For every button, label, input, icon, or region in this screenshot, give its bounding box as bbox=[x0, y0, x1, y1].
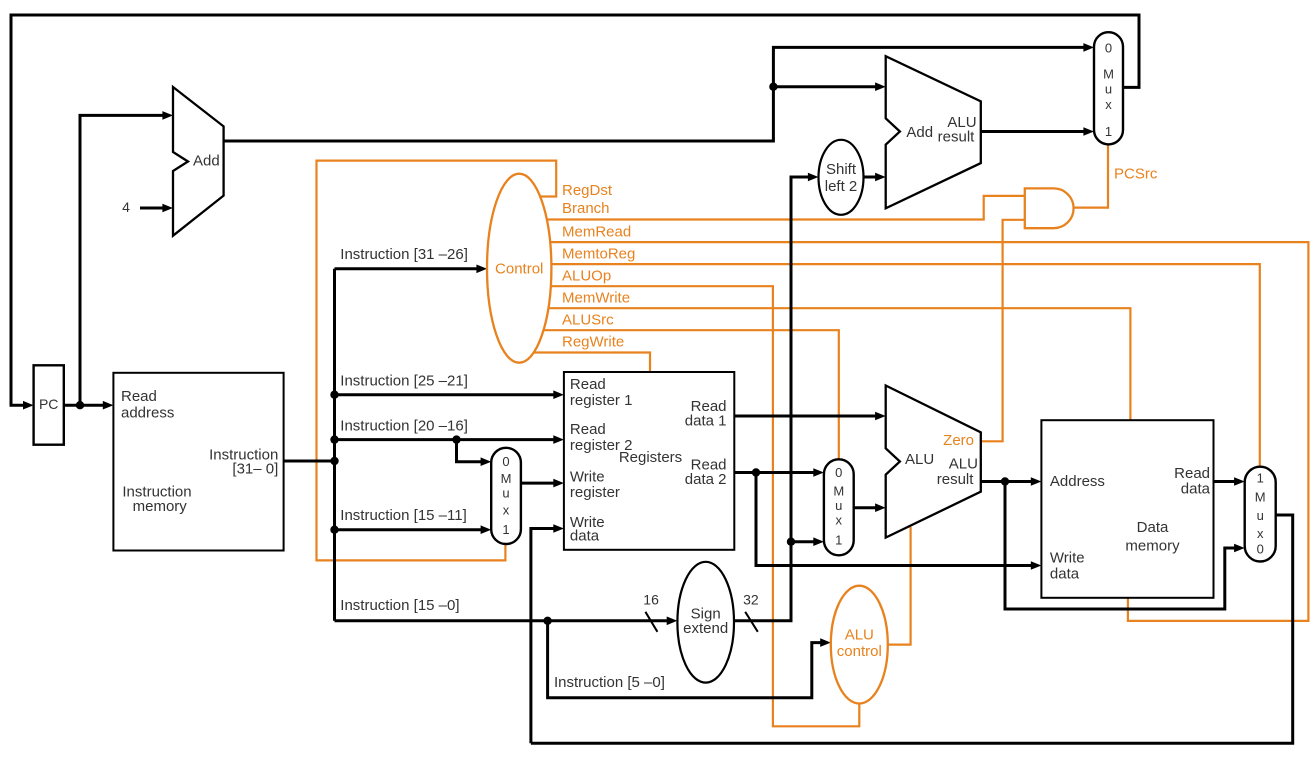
svg-text:0: 0 bbox=[1105, 41, 1112, 56]
svg-text:address: address bbox=[121, 404, 174, 421]
junction read data 2 split bbox=[752, 468, 760, 476]
svg-text:Branch: Branch bbox=[562, 200, 610, 217]
wire RegWrite: control to registers top bbox=[519, 353, 650, 373]
svg-text:MemWrite: MemWrite bbox=[562, 290, 630, 307]
wire MemtoReg: control to writeback mux top bbox=[519, 264, 1260, 467]
arrowhead into ALU top input bbox=[875, 412, 886, 421]
svg-text:data: data bbox=[570, 528, 600, 545]
svg-text:Control: Control bbox=[495, 261, 543, 278]
wire read data 2 branch to data memory write data bbox=[756, 473, 1034, 566]
svg-text:Read: Read bbox=[570, 421, 606, 438]
arrowhead into ALU control bbox=[820, 638, 831, 647]
control unit ellipse bbox=[487, 174, 551, 363]
wire PC+4 to branch adder top input bbox=[773, 85, 878, 88]
arrowhead into write register port bbox=[553, 479, 564, 488]
arrowhead into read register 1 bbox=[553, 390, 564, 399]
junction instruction bus 15-11 bbox=[330, 526, 338, 534]
wire PC output to instruction memory read address bbox=[64, 404, 106, 407]
svg-text:Address: Address bbox=[1050, 473, 1105, 490]
svg-text:Write: Write bbox=[570, 469, 605, 486]
svg-text:M: M bbox=[1103, 67, 1114, 82]
adder Add PC+4 bbox=[173, 87, 224, 236]
svg-text:ALU: ALU bbox=[845, 627, 874, 644]
wire Instruction 20-16 to read register 2 bbox=[335, 438, 557, 441]
wire MemWrite: control to data memory top bbox=[519, 308, 1130, 420]
wire ALU result to data memory address bbox=[981, 480, 1035, 483]
svg-text:x: x bbox=[503, 503, 510, 518]
svg-text:Registers: Registers bbox=[619, 449, 682, 466]
svg-text:data 1: data 1 bbox=[685, 413, 727, 430]
wire ALUOp: control to ALU control bottom bbox=[519, 286, 859, 726]
wire Instruction 31-26 to control bbox=[335, 267, 481, 270]
wire PCSrc: AND gate output to PC mux select bbox=[1074, 144, 1108, 207]
shift left 2 ellipse bbox=[819, 140, 864, 215]
svg-text:left 2: left 2 bbox=[825, 178, 858, 195]
svg-text:ALU: ALU bbox=[949, 456, 978, 473]
svg-text:RegWrite: RegWrite bbox=[562, 334, 624, 351]
arrowhead into writeback mux 0 bbox=[1234, 544, 1245, 553]
svg-text:register: register bbox=[570, 484, 620, 501]
wire sign extend output to shift left 2 bbox=[734, 177, 812, 621]
junction instruction 15-0 split bbox=[543, 617, 551, 625]
svg-text:PCSrc: PCSrc bbox=[1114, 165, 1158, 182]
svg-text:ALUSrc: ALUSrc bbox=[562, 312, 614, 329]
bus width slash 32 bbox=[745, 612, 758, 632]
wire Zero: ALU zero output to AND gate bottom input bbox=[975, 220, 1025, 441]
svg-text:u: u bbox=[1105, 82, 1112, 97]
svg-text:Read: Read bbox=[570, 376, 606, 393]
wire PC to PC+4 adder top input bbox=[80, 115, 166, 405]
svg-text:MemRead: MemRead bbox=[562, 224, 631, 241]
svg-text:memory: memory bbox=[133, 498, 188, 515]
arrowhead into data memory address bbox=[1031, 477, 1042, 486]
arrowhead into read register 2 bbox=[553, 435, 564, 444]
wire Instruction 15-0 to sign extend bbox=[335, 619, 671, 622]
svg-text:Data: Data bbox=[1137, 519, 1169, 536]
svg-text:0: 0 bbox=[1257, 542, 1264, 557]
wire instruction bus vertical bbox=[333, 269, 336, 621]
arrowhead into control bbox=[476, 265, 487, 274]
wire instruction memory output to instruction bus bbox=[284, 460, 335, 463]
svg-text:data 2: data 2 bbox=[685, 471, 727, 488]
mux writeback bbox=[1245, 467, 1276, 562]
svg-text:RegDst: RegDst bbox=[562, 182, 613, 199]
svg-text:Instruction [5 –0]: Instruction [5 –0] bbox=[554, 674, 665, 691]
svg-text:u: u bbox=[1257, 508, 1264, 523]
svg-text:control: control bbox=[837, 643, 882, 660]
arrowhead into ALU mux 1 bbox=[813, 537, 824, 546]
wire ALUSrc: control to ALU mux top bbox=[519, 330, 839, 459]
svg-text:memory: memory bbox=[1125, 537, 1180, 554]
ALU main bbox=[886, 386, 981, 538]
svg-text:Instruction [15 –11]: Instruction [15 –11] bbox=[340, 507, 466, 524]
svg-text:extend: extend bbox=[683, 620, 728, 637]
arrowhead into branch adder bottom bbox=[875, 173, 886, 182]
bus width slash 16 bbox=[645, 612, 657, 632]
svg-text:M: M bbox=[1255, 490, 1266, 505]
junction sign extend output split bbox=[787, 538, 795, 546]
junction instruction bus 25-21 bbox=[330, 391, 338, 399]
svg-text:x: x bbox=[1257, 526, 1264, 541]
svg-text:data: data bbox=[1181, 480, 1211, 497]
svg-text:Zero: Zero bbox=[943, 432, 974, 449]
svg-text:ALUOp: ALUOp bbox=[562, 268, 611, 285]
adder Add branch bbox=[886, 56, 981, 208]
arrowhead into PC mux 1 bbox=[1083, 127, 1094, 136]
wire shift left 2 output to branch adder bottom input bbox=[864, 176, 879, 179]
data memory box bbox=[1041, 420, 1213, 598]
arrowhead into PC bbox=[23, 401, 34, 410]
svg-text:Add: Add bbox=[193, 152, 220, 169]
sign extend ellipse bbox=[677, 562, 734, 683]
junction ALU result split bbox=[1001, 477, 1009, 485]
svg-text:Shift: Shift bbox=[826, 161, 857, 178]
svg-text:1: 1 bbox=[502, 522, 509, 537]
wire constant 4 to adder bottom input bbox=[140, 207, 166, 210]
wire write-register mux output to write register port bbox=[521, 482, 557, 485]
svg-text:data: data bbox=[1050, 566, 1080, 583]
svg-text:result: result bbox=[937, 471, 975, 488]
instruction memory box bbox=[113, 373, 283, 551]
wire RegDst: control to write-register mux bbox=[317, 161, 557, 561]
svg-text:Add: Add bbox=[906, 124, 933, 141]
junction instruction 20-16 split bbox=[452, 435, 460, 443]
arrowhead into sign extend bbox=[667, 617, 678, 626]
wire PC+4 adder output to PC mux 0 input bbox=[224, 47, 1087, 141]
arrowhead into instruction memory read address bbox=[103, 401, 114, 410]
wire branch adder ALU result to PC mux 1 input bbox=[981, 130, 1087, 133]
svg-text:1: 1 bbox=[835, 533, 842, 548]
svg-text:result: result bbox=[938, 129, 976, 146]
svg-text:M: M bbox=[833, 484, 844, 499]
wire Instruction 5-0 to ALU control bbox=[548, 621, 824, 698]
arrowhead into writeback mux 1 bbox=[1234, 477, 1245, 486]
wire read data 1 to ALU top input bbox=[734, 415, 878, 418]
wire ALU mux output to ALU bottom input bbox=[854, 506, 879, 509]
wire PC mux output loop back to PC input bbox=[11, 15, 1139, 405]
svg-text:32: 32 bbox=[743, 591, 759, 607]
arrowhead into PC+4 adder bottom bbox=[162, 204, 173, 213]
svg-text:u: u bbox=[835, 498, 842, 513]
svg-text:16: 16 bbox=[643, 591, 659, 607]
svg-text:x: x bbox=[836, 513, 843, 528]
ALU control ellipse bbox=[831, 586, 888, 704]
arrowhead into ALU mux 0 bbox=[813, 468, 824, 477]
svg-text:Read: Read bbox=[121, 388, 157, 405]
registers box bbox=[564, 372, 734, 550]
svg-text:Instruction [15 –0]: Instruction [15 –0] bbox=[340, 597, 459, 614]
wire Instruction 20-16 branch to write-register mux 0 input bbox=[457, 440, 485, 462]
svg-text:1: 1 bbox=[1105, 124, 1112, 139]
wire Instruction 15-11 to write-register mux 1 input bbox=[335, 528, 485, 531]
arrowhead into write-register mux 1 bbox=[481, 525, 492, 534]
arrowhead into shift left 2 bbox=[808, 173, 819, 182]
svg-text:1: 1 bbox=[1257, 471, 1264, 486]
svg-text:register 1: register 1 bbox=[570, 392, 633, 409]
svg-text:0: 0 bbox=[835, 465, 842, 480]
svg-text:Write: Write bbox=[1050, 550, 1085, 567]
wire writeback mux output loop to bottom bbox=[531, 515, 1293, 743]
wire writeback to registers write data bbox=[531, 529, 557, 744]
svg-text:M: M bbox=[501, 471, 512, 486]
svg-text:[31– 0]: [31– 0] bbox=[232, 461, 278, 478]
arrowhead into data memory write data bbox=[1031, 561, 1042, 570]
arrowhead into write-register mux 0 bbox=[481, 457, 492, 466]
register PC bbox=[34, 365, 64, 444]
arrowhead into PC mux 0 bbox=[1083, 43, 1094, 52]
junction instruction bus 20-16 bbox=[330, 435, 338, 443]
svg-text:PC: PC bbox=[39, 396, 58, 412]
arrowhead into PC+4 adder top bbox=[162, 111, 173, 120]
wire ALU control output to ALU control input bbox=[880, 527, 911, 645]
svg-text:4: 4 bbox=[122, 199, 130, 215]
wire Instruction 25-21 to read register 1 bbox=[335, 393, 557, 396]
svg-text:x: x bbox=[1105, 97, 1112, 112]
svg-text:Instruction [31 –26]: Instruction [31 –26] bbox=[340, 246, 468, 263]
wire read data 2 to ALU mux 0 input bbox=[734, 471, 817, 474]
AND gate bbox=[1025, 188, 1074, 228]
svg-text:ALU: ALU bbox=[905, 451, 934, 468]
junction PC+4 branch bbox=[769, 83, 777, 91]
wire ALU result branch to writeback mux 0 input bbox=[1005, 482, 1238, 610]
svg-text:MemtoReg: MemtoReg bbox=[562, 246, 635, 263]
wire Branch: control to AND gate top input bbox=[519, 196, 1025, 220]
mux write register bbox=[491, 448, 521, 544]
arrowhead into branch adder top bbox=[875, 82, 886, 91]
wire data memory read data to writeback mux 1 input bbox=[1214, 480, 1238, 483]
mux PC source bbox=[1094, 32, 1123, 144]
junction instruction bus memory output bbox=[330, 457, 338, 465]
wire sign extend output branch to ALU mux 1 input bbox=[791, 540, 817, 543]
junction PC output bbox=[76, 401, 84, 409]
arrowhead into ALU bottom input bbox=[875, 503, 886, 512]
svg-text:Instruction [20 –16]: Instruction [20 –16] bbox=[340, 417, 468, 434]
svg-text:Instruction [25 –21]: Instruction [25 –21] bbox=[340, 373, 468, 390]
arrowhead into write data port bbox=[553, 524, 564, 533]
mux ALU source bbox=[824, 459, 854, 555]
svg-text:u: u bbox=[502, 486, 509, 501]
wire MemRead: control to data memory bottom bbox=[519, 242, 1308, 621]
svg-text:0: 0 bbox=[502, 454, 509, 469]
